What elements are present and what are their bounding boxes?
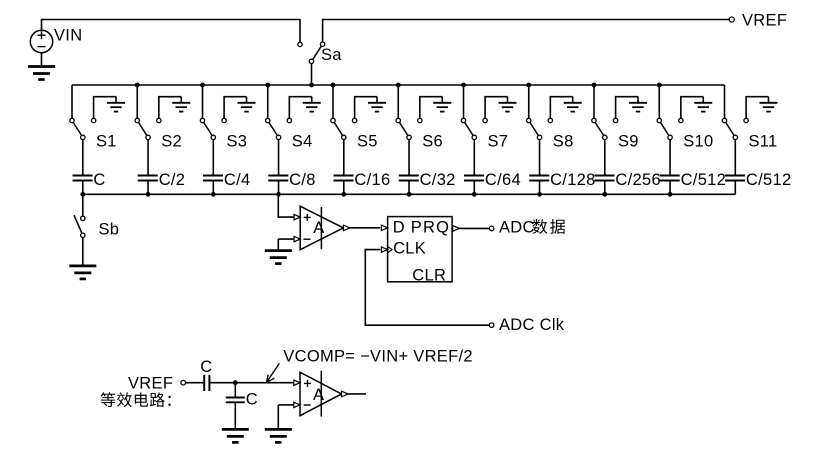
- label S10: [683, 132, 713, 150]
- value label C/2: [159, 171, 186, 189]
- wire S1 capacitor to bottom bus: [82, 182, 84, 195]
- capacitor C (shunt): [226, 398, 245, 403]
- wire S10 branch drop: [658, 85, 660, 118]
- value label C/512: [746, 171, 792, 189]
- svg-text:C: C: [200, 358, 212, 376]
- node bottom-bus junction S9: [602, 192, 607, 197]
- capacitor C/512 (S10 branch): [660, 176, 680, 181]
- wire S8 capacitor to bottom bus: [539, 182, 541, 195]
- node bottom-bus junction S8: [537, 192, 542, 197]
- wire S3 capacitor to bottom bus: [212, 182, 214, 195]
- label S5: [357, 132, 378, 150]
- wire S4 branch drop: [267, 85, 269, 118]
- ground (S8 contact): [564, 97, 582, 112]
- switch S3: [200, 118, 226, 139]
- switch S7: [461, 118, 487, 139]
- label D: [393, 219, 405, 237]
- svg-text:C/16: C/16: [354, 171, 390, 189]
- ground (shunt cap): [222, 429, 249, 442]
- ground (below VIN): [28, 53, 55, 80]
- wire bottom bus to Sb: [82, 194, 84, 216]
- value label C/256: [615, 171, 661, 189]
- svg-text:S4: S4: [292, 132, 313, 150]
- svg-text:CLK: CLK: [393, 240, 426, 258]
- svg-text:C/4: C/4: [224, 171, 251, 189]
- ground (S10 contact): [694, 97, 712, 112]
- ground (S7 contact): [499, 97, 517, 112]
- wire S3 ground contact arm: [224, 97, 246, 119]
- switch S5: [331, 118, 357, 139]
- node Sa-bus junction: [309, 83, 314, 88]
- svg-text:PRQ: PRQ: [411, 219, 450, 237]
- switch S1: [70, 118, 96, 139]
- label VIN: [54, 27, 82, 45]
- terminal VREF equivalent: [181, 380, 186, 385]
- label PRQ: [411, 219, 450, 237]
- value label C/128: [550, 171, 596, 189]
- svg-text:A: A: [313, 386, 324, 404]
- wire S2 branch drop: [136, 85, 138, 118]
- node top-bus junction S3: [200, 83, 205, 88]
- ground (S4 contact): [303, 97, 321, 112]
- wire S7 ground contact arm: [485, 97, 507, 119]
- wire S2 capacitor to bottom bus: [147, 182, 149, 195]
- wire CLK routing: [365, 250, 489, 326]
- switch S4: [266, 118, 292, 139]
- switch Sa: [298, 42, 325, 64]
- label S9: [618, 132, 639, 150]
- capacitor C (series): [204, 375, 209, 391]
- wire S5 capacitor to bottom bus: [343, 182, 345, 195]
- label C (series cap): [200, 358, 212, 376]
- value label C: [93, 171, 105, 189]
- wire S11 ground contact arm: [746, 97, 768, 119]
- node equivalent junction: [233, 380, 238, 385]
- capacitor C/4 (S3 branch): [203, 176, 223, 181]
- wire S7 capacitor to bottom bus: [473, 182, 475, 195]
- value label C/16: [354, 171, 390, 189]
- pin Q output arrow: [453, 226, 460, 232]
- label VREF (equivalent circuit): [128, 375, 173, 393]
- switch S9: [592, 118, 618, 139]
- wire S5 ground contact arm: [355, 97, 377, 119]
- wire S1 to capacitor: [82, 140, 84, 175]
- wire Sb to ground: [82, 238, 84, 266]
- capacitor C/8 (S4 branch): [268, 176, 288, 181]
- ground (U1 - input): [265, 239, 292, 264]
- wire S4 capacitor to bottom bus: [278, 182, 280, 195]
- ground (below Sb): [69, 266, 96, 279]
- svg-text:Sb: Sb: [99, 221, 120, 239]
- pin U3 + input arrow: [294, 380, 300, 385]
- wire S8 ground contact arm: [550, 97, 572, 119]
- svg-text:S3: S3: [227, 132, 248, 150]
- ground (S6 contact): [433, 97, 451, 112]
- label 等效电路：: [101, 392, 171, 407]
- pin U3 - input arrow: [294, 402, 300, 407]
- wire bottom bus: [83, 193, 736, 195]
- svg-text:VREF: VREF: [742, 12, 787, 30]
- value label C/32: [420, 171, 456, 189]
- label CLR: [412, 267, 446, 285]
- switch S8: [527, 118, 553, 139]
- capacitor C/128 (S8 branch): [529, 176, 549, 181]
- pin CLK input arrow: [381, 247, 392, 253]
- value label C/64: [485, 171, 521, 189]
- switch S11: [722, 118, 748, 139]
- annotation arrow VCOMP: [267, 363, 280, 382]
- capacitor C/16 (S5 branch): [334, 176, 354, 181]
- wire S2 to capacitor: [147, 140, 149, 175]
- wire S1 ground contact arm: [94, 97, 116, 119]
- wire VIN top: [42, 20, 301, 43]
- label ADC Clk: [499, 316, 565, 334]
- wire S10 capacitor to bottom bus: [669, 182, 671, 195]
- ground (S1 contact): [107, 97, 125, 112]
- node bottom-bus junction S3: [211, 192, 216, 197]
- wire S9 branch drop: [593, 85, 595, 118]
- wire S2 ground contact arm: [159, 97, 181, 119]
- svg-text:S9: S9: [618, 132, 639, 150]
- node bottom-bus junction S7: [472, 192, 477, 197]
- svg-text:C/512: C/512: [681, 171, 727, 189]
- svg-text:S1: S1: [96, 132, 117, 150]
- svg-text:ADC: ADC: [499, 219, 535, 237]
- label S7: [488, 132, 509, 150]
- terminal ADC data: [489, 226, 494, 231]
- label S6: [422, 132, 443, 150]
- capacitor C/512 (S11 branch): [725, 176, 745, 181]
- label S11: [749, 132, 778, 150]
- svg-text:D: D: [393, 219, 405, 237]
- svg-text:C/64: C/64: [485, 171, 521, 189]
- node top-bus junction S4: [265, 83, 270, 88]
- terminal ADC Clk: [489, 323, 494, 328]
- flip-flop U2 box: [388, 217, 453, 282]
- svg-text:S2: S2: [161, 132, 182, 150]
- capacitor C/64 (S7 branch): [464, 176, 484, 181]
- wire S9 capacitor to bottom bus: [604, 182, 606, 195]
- wire S10 to capacitor: [669, 140, 671, 175]
- svg-text:S6: S6: [422, 132, 443, 150]
- switch Sb: [74, 215, 85, 237]
- wire S6 to capacitor: [408, 140, 410, 175]
- wire Q output: [460, 227, 490, 229]
- wire shunt C to ground: [234, 403, 236, 429]
- svg-text:C/512: C/512: [746, 171, 792, 189]
- ground (S11 contact): [760, 97, 778, 112]
- label S4: [292, 132, 313, 150]
- node bottom-bus junction S5: [341, 192, 346, 197]
- capacitor C/2 (S2 branch): [138, 176, 158, 181]
- svg-text:S8: S8: [553, 132, 574, 150]
- label S3: [227, 132, 248, 150]
- wire U3 output stub: [348, 393, 366, 395]
- label ADC数据: [499, 219, 565, 237]
- pin U1 - input arrow: [294, 236, 300, 241]
- wire S10 ground contact arm: [681, 97, 703, 119]
- node bottom-bus junction S1: [80, 192, 85, 197]
- wire S11 capacitor to bottom bus: [734, 182, 736, 195]
- terminal VREF: [729, 17, 734, 22]
- switch S2: [135, 118, 161, 139]
- node top-bus junction S10: [657, 83, 662, 88]
- wire S7 to capacitor: [473, 140, 475, 175]
- wire S1 branch drop: [71, 85, 73, 118]
- node bottom-bus junction S10: [668, 192, 673, 197]
- op-amp U1 (comparator A): [300, 206, 343, 250]
- wire C series to comparator: [210, 382, 294, 384]
- svg-text:S10: S10: [683, 132, 713, 150]
- wire top bus: [72, 84, 725, 86]
- node bottom-bus junction S2: [146, 192, 151, 197]
- switch S10: [657, 118, 683, 139]
- svg-text:VIN: VIN: [54, 27, 82, 45]
- wire U1 - input: [278, 238, 294, 240]
- wire bottom bus to comparator + input: [278, 194, 294, 217]
- svg-text:C: C: [246, 390, 258, 408]
- wire junction to shunt C: [234, 383, 236, 397]
- ground (S9 contact): [629, 97, 647, 112]
- wire S11 branch drop: [724, 85, 726, 118]
- wire S4 ground contact arm: [289, 97, 311, 119]
- value label C/8: [289, 171, 316, 189]
- wire S8 branch drop: [528, 85, 530, 118]
- wire Sa to top bus: [311, 64, 313, 86]
- node bottom-bus junction S6: [407, 192, 412, 197]
- node top-bus junction S2: [135, 83, 140, 88]
- label S2: [161, 132, 182, 150]
- voltage source VIN: [30, 30, 52, 52]
- wire S9 ground contact arm: [616, 97, 638, 119]
- node bottom-bus junction S4: [276, 192, 281, 197]
- label CLK: [393, 240, 426, 258]
- switch S6: [396, 118, 422, 139]
- value label C/512: [681, 171, 727, 189]
- wire S5 to capacitor: [343, 140, 345, 175]
- svg-text:C/2: C/2: [159, 171, 186, 189]
- node top-bus junction S8: [526, 83, 531, 88]
- svg-text:VCOMP= −VIN+ VREF/2: VCOMP= −VIN+ VREF/2: [283, 347, 473, 365]
- svg-text:C: C: [93, 171, 105, 189]
- node top-bus junction S6: [396, 83, 401, 88]
- wire terminal to C series: [186, 382, 204, 384]
- node top-bus junction S5: [331, 83, 336, 88]
- wire S8 to capacitor: [539, 140, 541, 175]
- wire VREF rail: [323, 20, 730, 43]
- label VCOMP equation: [283, 347, 473, 365]
- wire U3 - to ground: [277, 405, 279, 430]
- svg-text:Sa: Sa: [321, 46, 342, 64]
- wire S11 to capacitor: [734, 140, 736, 175]
- wire S6 branch drop: [397, 85, 399, 118]
- capacitor C/32 (S6 branch): [399, 176, 419, 181]
- label C (shunt cap): [246, 390, 258, 408]
- pin U3 output arrow: [342, 391, 349, 397]
- svg-text:ADC Clk: ADC Clk: [499, 316, 565, 334]
- label A (U1): [313, 219, 324, 237]
- op-amp U3 (comparator A, equivalent): [300, 371, 342, 417]
- value label C/4: [224, 171, 251, 189]
- label S8: [553, 132, 574, 150]
- svg-text:S11: S11: [749, 132, 778, 150]
- svg-text:VREF: VREF: [128, 375, 173, 393]
- pin U1 output arrow: [343, 225, 350, 231]
- svg-text:A: A: [313, 219, 324, 237]
- label A (U3): [313, 386, 324, 404]
- svg-text:S7: S7: [488, 132, 509, 150]
- svg-text:C/128: C/128: [550, 171, 596, 189]
- wire S6 capacitor to bottom bus: [408, 182, 410, 195]
- node top-bus junction S7: [461, 83, 466, 88]
- wire S9 to capacitor: [604, 140, 606, 175]
- label Sb: [99, 221, 120, 239]
- wire S7 branch drop: [463, 85, 465, 118]
- ground (U3 - input): [265, 429, 292, 442]
- label VREF (top right): [742, 12, 787, 30]
- ground (S2 contact): [172, 97, 190, 112]
- wire S3 branch drop: [202, 85, 204, 118]
- label S1: [96, 132, 117, 150]
- pin U1 + input arrow: [294, 214, 300, 219]
- svg-text:S5: S5: [357, 132, 378, 150]
- wire U3 - input: [278, 404, 294, 406]
- pin D input arrow: [381, 225, 387, 230]
- wire S6 ground contact arm: [420, 97, 442, 119]
- svg-text:C/32: C/32: [420, 171, 456, 189]
- wire S4 to capacitor: [278, 140, 280, 175]
- label Sa: [321, 46, 342, 64]
- svg-text:C/8: C/8: [289, 171, 316, 189]
- capacitor C/256 (S9 branch): [595, 176, 615, 181]
- wire U1 output to D input: [350, 227, 380, 229]
- ground (S5 contact): [368, 97, 386, 112]
- svg-text:C/256: C/256: [615, 171, 661, 189]
- wire S3 to capacitor: [212, 140, 214, 175]
- svg-text:CLR: CLR: [412, 267, 446, 285]
- capacitor C (S1 branch): [73, 176, 93, 181]
- ground (S3 contact): [238, 97, 256, 112]
- node top-bus junction S9: [592, 83, 597, 88]
- wire S5 branch drop: [332, 85, 334, 118]
